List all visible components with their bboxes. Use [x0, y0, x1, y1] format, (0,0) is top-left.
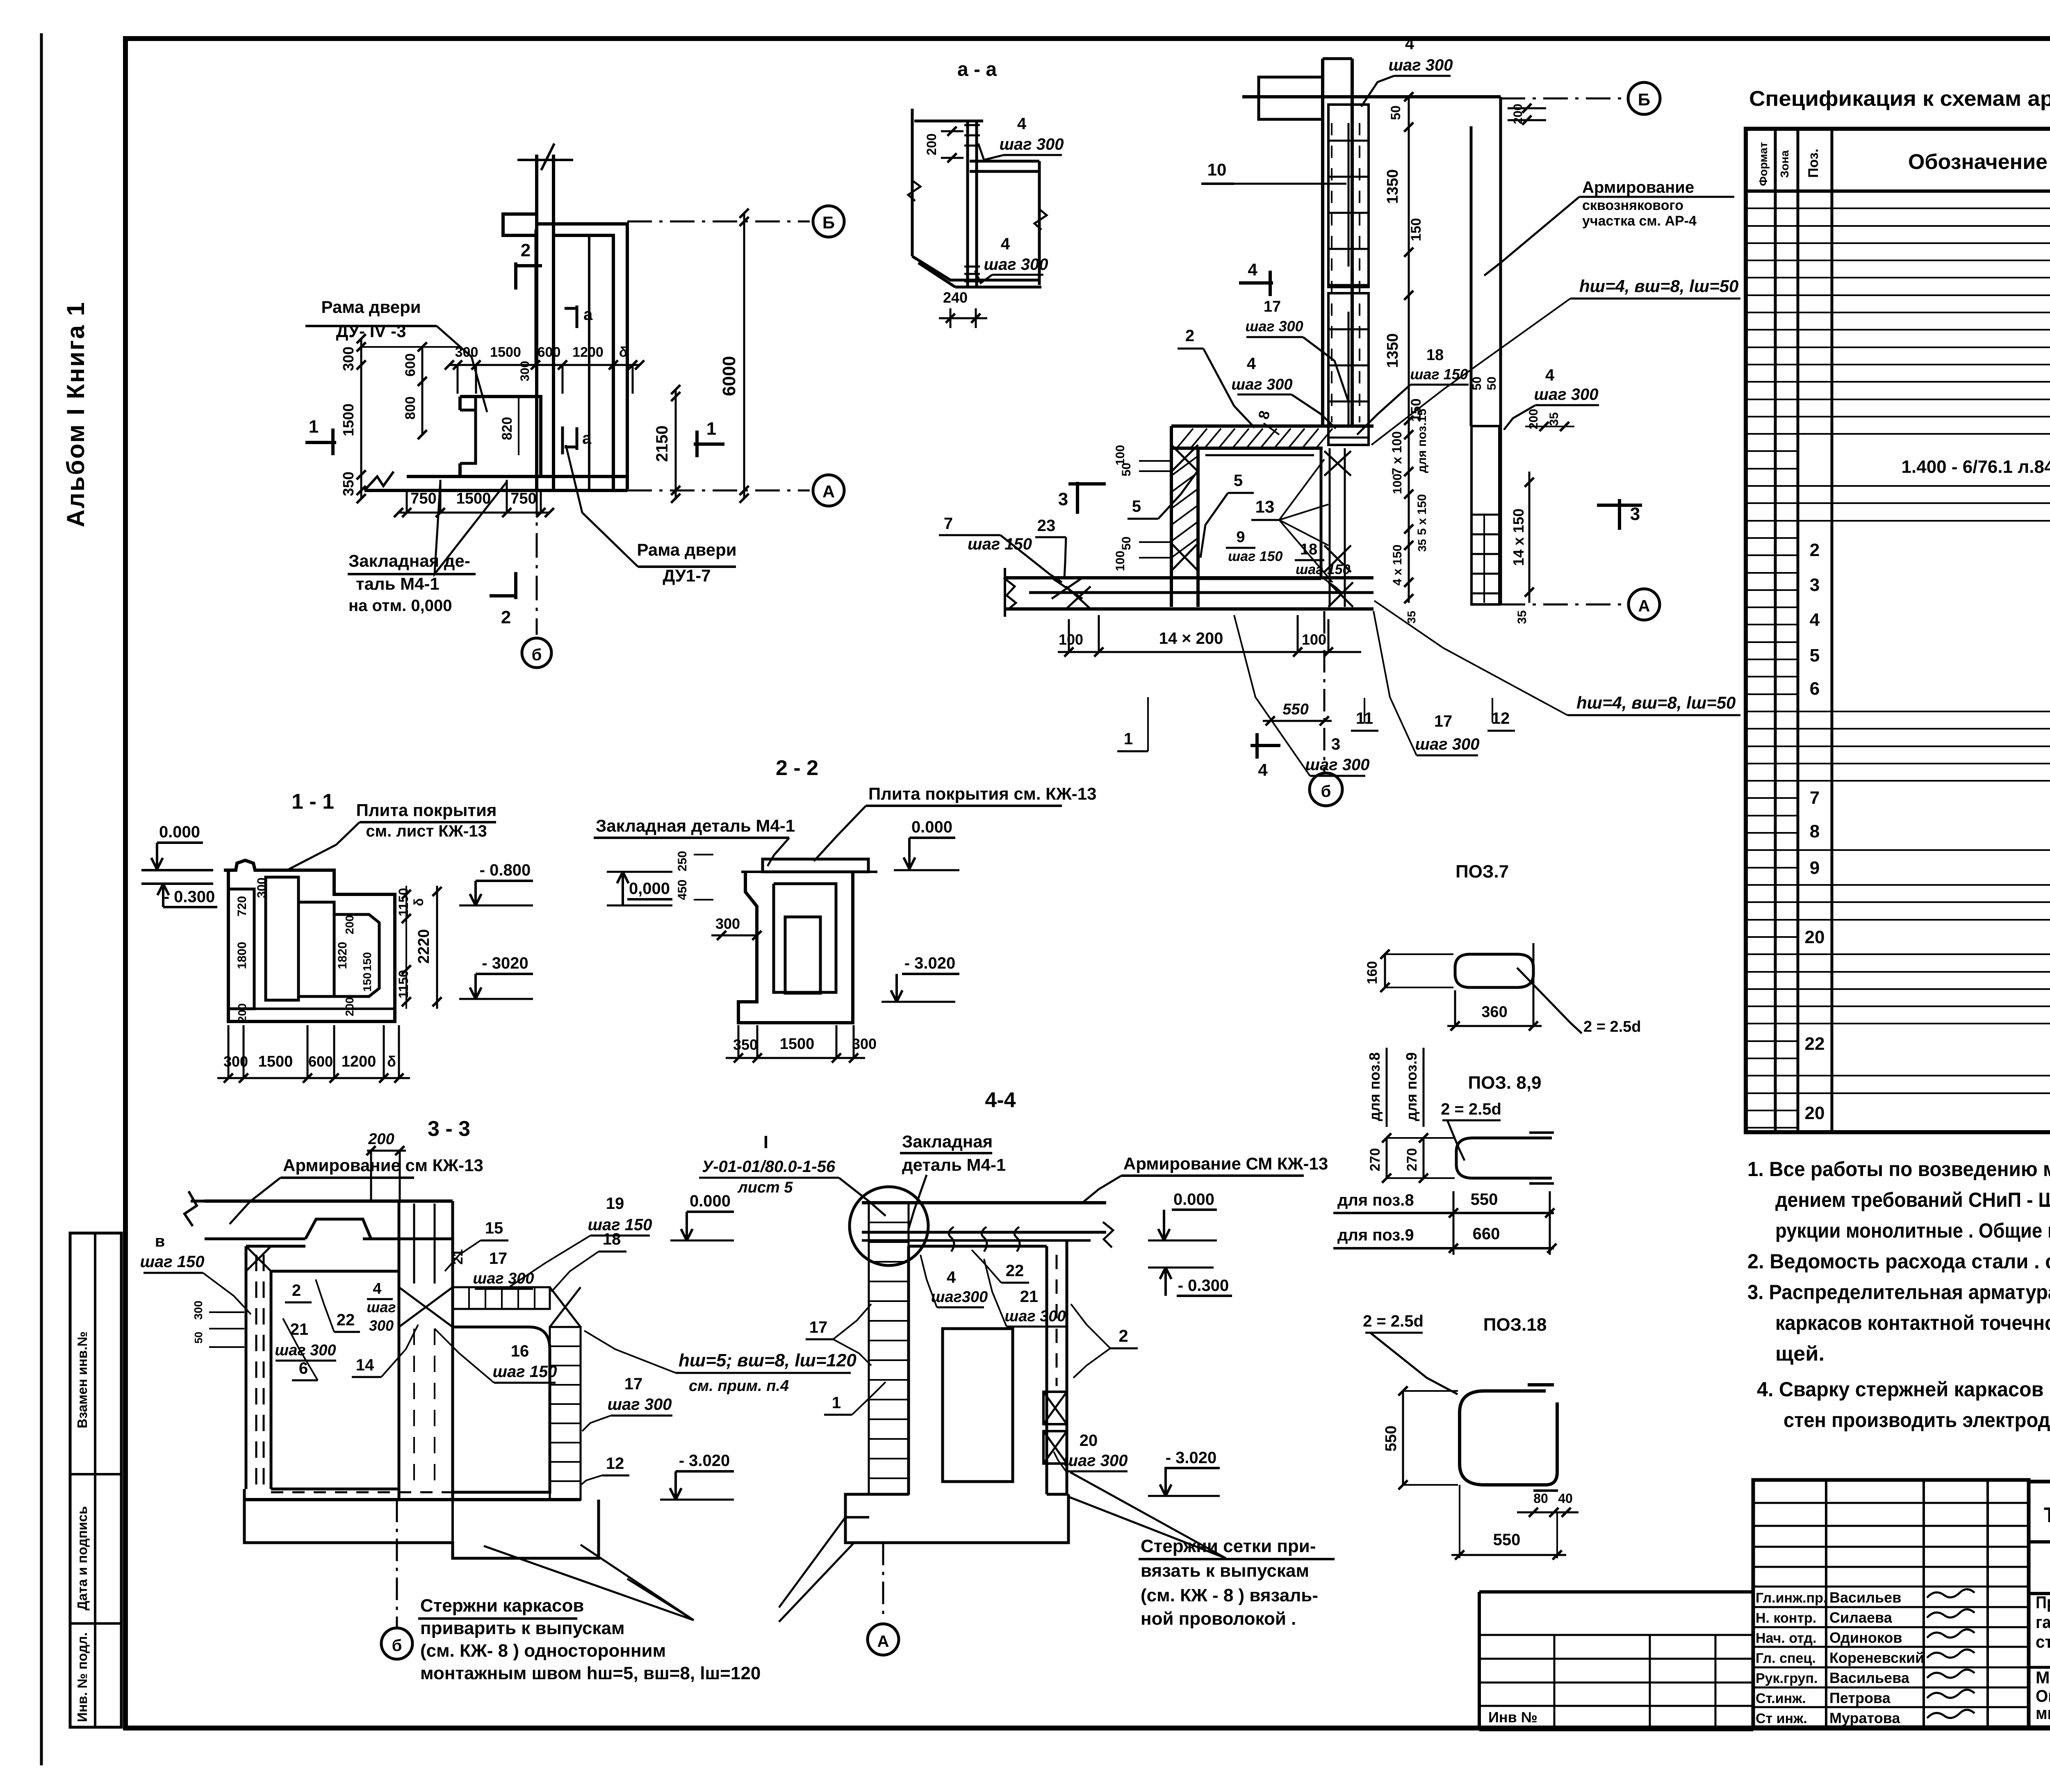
- svg-text:5: 5: [1132, 497, 1141, 515]
- svg-text:4: 4: [1258, 760, 1268, 780]
- title block: revision/signature table: [1753, 1480, 2029, 1727]
- TR: wall verticals: [1321, 59, 1324, 426]
- svg-text:4. Сварку стержней каркасов: 4. Сварку стержней каркасов покрытия со …: [1757, 1378, 2050, 1401]
- svg-text:шаг 300: шаг 300: [607, 1395, 672, 1414]
- svg-text:Армирование см КЖ-13: Армирование см КЖ-13: [283, 1156, 483, 1175]
- svg-text:ПОЗ.7: ПОЗ.7: [1455, 862, 1509, 882]
- a-a break squiggle left: [908, 180, 920, 201]
- svg-text:1: 1: [706, 419, 716, 439]
- svg-text:шаг 300: шаг 300: [1004, 1308, 1066, 1325]
- svg-text:14 × 200: 14 × 200: [1159, 629, 1223, 647]
- 3-3 room2: [453, 1327, 550, 1492]
- axis line down to circle b: [536, 490, 538, 635]
- svg-text:150: 150: [361, 973, 374, 992]
- svg-text:40: 40: [1558, 1491, 1573, 1506]
- svg-text:см. лист КЖ-13: см. лист КЖ-13: [366, 822, 487, 840]
- svg-text:660: 660: [1473, 1225, 1500, 1243]
- svg-text:- 3.020: - 3.020: [679, 1452, 730, 1470]
- left margin stamp boxes: [70, 1233, 121, 1727]
- svg-text:Силаева: Силаева: [1829, 1609, 1893, 1626]
- svg-text:4: 4: [1017, 115, 1027, 133]
- svg-text:лист 5: лист 5: [737, 1179, 793, 1196]
- svg-text:35: 35: [1547, 412, 1561, 426]
- svg-text:200: 200: [236, 1003, 248, 1023]
- svg-text:2220: 2220: [415, 929, 433, 964]
- svg-text:Ст.инж.: Ст.инж.: [1756, 1691, 1806, 1706]
- svg-text:на отм. 0,000: на отм. 0,000: [348, 597, 452, 615]
- TR: top horizontal line: [1242, 95, 1501, 98]
- TR: left protrusion: [1259, 77, 1323, 119]
- TR: section3 flag right: [1597, 504, 1642, 507]
- pos18 square hoop: [1460, 1385, 1557, 1485]
- 3-3 foundation: [244, 1498, 581, 1501]
- plan: bottom wall: [407, 475, 627, 478]
- svg-text:50: 50: [1120, 536, 1133, 550]
- svg-text:δ: δ: [411, 898, 426, 906]
- svg-text:6: 6: [1810, 679, 1820, 699]
- svg-text:20: 20: [1080, 1432, 1098, 1450]
- svg-text:шаг 150: шаг 150: [1296, 562, 1351, 577]
- svg-text:150: 150: [1408, 218, 1424, 242]
- svg-text:Васильев: Васильев: [1829, 1589, 1901, 1606]
- svg-text:1350: 1350: [1384, 333, 1401, 368]
- pos89 U shape: [1456, 1138, 1552, 1178]
- plan: room lower left: [460, 397, 541, 476]
- 4-4 leaders from left bottom: [779, 1517, 845, 1607]
- TR: axis circle A2: [1629, 589, 1660, 620]
- svg-text:20: 20: [1805, 927, 1825, 947]
- axis circle b small: [522, 638, 551, 668]
- svg-text:2: 2: [521, 240, 531, 260]
- plan: left dim string 300/1500/350: [360, 339, 362, 499]
- svg-text:шаг 300: шаг 300: [999, 135, 1064, 153]
- svg-text:550: 550: [1282, 701, 1308, 718]
- svg-text:б: б: [1321, 782, 1331, 800]
- plan: inner dims 600/800: [421, 347, 424, 435]
- TR: right dim strings lower: [1408, 435, 1410, 603]
- svg-text:А: А: [1638, 597, 1650, 615]
- 4-4 right wall rebar boxes: [1043, 1392, 1067, 1424]
- svg-text:шаг 150: шаг 150: [968, 535, 1032, 553]
- TR: vertical dim string: [1408, 97, 1410, 435]
- svg-text:шаг 300: шаг 300: [1063, 1452, 1127, 1470]
- 4-4 callout circle: [850, 1187, 928, 1265]
- plan: a-a cut marks: [576, 306, 579, 328]
- svg-text:22: 22: [1006, 1262, 1024, 1280]
- svg-text:ной проволокой .: ной проволокой .: [1141, 1609, 1296, 1629]
- svg-text:100: 100: [1114, 551, 1127, 571]
- plan: top tick at wall top: [517, 159, 573, 161]
- 3-3 left wall dashed: [245, 1246, 248, 1489]
- 4-4 wall outline: [909, 1245, 1047, 1248]
- svg-text:шаг 300: шаг 300: [1231, 376, 1292, 393]
- TR plan: inner room lines: [1198, 577, 1321, 580]
- svg-text:2150: 2150: [653, 426, 671, 462]
- a-a rebar ticks top: [964, 124, 980, 126]
- svg-text:17: 17: [624, 1375, 643, 1393]
- svg-text:2 = 2.5d: 2 = 2.5d: [1441, 1100, 1501, 1118]
- plan: upper-right wall outline: [537, 224, 627, 489]
- svg-text:шаг 150: шаг 150: [492, 1363, 557, 1381]
- 1-1 dim 2220: [436, 886, 438, 1009]
- svg-text:1820: 1820: [336, 942, 349, 969]
- svg-text:Нач. отд.: Нач. отд.: [1756, 1630, 1816, 1646]
- svg-text:Закладная де-: Закладная де-: [348, 551, 470, 570]
- svg-text:сквознякового: сквознякового: [1582, 198, 1683, 213]
- svg-text:3: 3: [1058, 489, 1068, 509]
- svg-text:450: 450: [676, 880, 689, 900]
- svg-text:Армирование СМ КЖ-13: Армирование СМ КЖ-13: [1123, 1154, 1328, 1173]
- TR: axis circle b2: [1310, 773, 1342, 806]
- svg-text:1: 1: [1124, 730, 1133, 748]
- svg-text:18: 18: [603, 1230, 621, 1248]
- svg-text:9: 9: [1236, 529, 1245, 546]
- svg-text:300: 300: [715, 915, 740, 932]
- svg-text:17: 17: [489, 1249, 508, 1268]
- svg-text:шаг 150: шаг 150: [1410, 366, 1468, 383]
- svg-text:12: 12: [1492, 709, 1510, 727]
- svg-text:4: 4: [1001, 235, 1010, 253]
- svg-text:12: 12: [606, 1455, 624, 1473]
- svg-text:5 x 150: 5 x 150: [1415, 494, 1429, 535]
- svg-text:4-4: 4-4: [985, 1088, 1016, 1112]
- svg-text:деталь М4-1: деталь М4-1: [902, 1155, 1006, 1174]
- TR: section3 flag left: [1068, 482, 1106, 486]
- TR plan: left wall hatch: [1171, 456, 1198, 476]
- svg-text:350: 350: [340, 472, 357, 496]
- svg-text:4: 4: [373, 1280, 381, 1297]
- svg-text:21: 21: [450, 1249, 466, 1265]
- svg-text:6000: 6000: [719, 356, 739, 396]
- svg-text:Б: Б: [1638, 90, 1650, 109]
- svg-text:20: 20: [1805, 1103, 1825, 1123]
- svg-text:5: 5: [1234, 472, 1243, 490]
- svg-text:4 x 150: 4 x 150: [1391, 545, 1404, 586]
- sheet edge line: [40, 33, 43, 1765]
- svg-text:270: 270: [1367, 1148, 1383, 1172]
- svg-text:19: 19: [606, 1195, 624, 1213]
- svg-text:Формат: Формат: [1757, 142, 1770, 186]
- svg-text:150: 150: [361, 952, 374, 971]
- svg-text:2: 2: [292, 1281, 301, 1300]
- 4-4 leaders to right note: [1068, 1497, 1226, 1558]
- svg-text:100: 100: [1391, 474, 1404, 494]
- spec table columns: [1774, 129, 1777, 1132]
- svg-text:в: в: [155, 1232, 165, 1250]
- svg-text:750: 750: [510, 490, 536, 507]
- 1-1 bottom dim 300/1500/600/1200: [217, 1077, 410, 1079]
- a-a rebar ticks bottom: [964, 266, 980, 268]
- svg-text:1.400 - 6/76.1 л.84: 1.400 - 6/76.1 л.84: [1902, 457, 2050, 477]
- svg-text:200: 200: [343, 915, 356, 935]
- plan: dim 2150: [675, 390, 677, 498]
- svg-text:Производственное здание Вспомо: Производственное здание Вспомо-: [2036, 1593, 2050, 1612]
- svg-text:80: 80: [1533, 1491, 1548, 1506]
- svg-text:приварить к выпускам: приварить к выпускам: [420, 1618, 625, 1638]
- svg-text:50: 50: [1470, 376, 1484, 390]
- spec table frame: [1746, 129, 2050, 1132]
- svg-text:Плита покрытия см. КЖ-13: Плита покрытия см. КЖ-13: [868, 784, 1096, 803]
- svg-text:шаг: шаг: [367, 1299, 396, 1316]
- svg-text:Опалубочные чертежи и схе-: Опалубочные чертежи и схе-: [2036, 1686, 2050, 1705]
- svg-text:16: 16: [511, 1342, 529, 1360]
- svg-text:4: 4: [947, 1268, 956, 1286]
- svg-text:0.000: 0.000: [690, 1192, 731, 1210]
- a-a right shelf: [970, 160, 1039, 163]
- svg-text:Спецификация к схемам армирова: Спецификация к схемам армирования моноли…: [1749, 87, 2050, 111]
- svg-text:200: 200: [368, 1131, 394, 1148]
- TR plan: top wall: [1171, 424, 1373, 428]
- svg-text:А: А: [877, 1632, 889, 1651]
- 4-4 top slab: [862, 1201, 1106, 1204]
- TR plan: floor left break: [1004, 568, 1006, 617]
- 2-2 inner rect lines: [774, 884, 836, 992]
- svg-text:14 x 150: 14 x 150: [1510, 508, 1527, 566]
- spec table header row: [1746, 189, 2050, 193]
- TR plan: right cage column 12: [1471, 426, 1499, 604]
- svg-text:23: 23: [1037, 517, 1056, 535]
- svg-text:Закладная: Закладная: [902, 1132, 993, 1151]
- svg-text:Н. контр.: Н. контр.: [1756, 1610, 1816, 1626]
- svg-text:1500: 1500: [258, 1053, 293, 1070]
- svg-text:200: 200: [343, 997, 356, 1017]
- svg-text:2: 2: [1118, 1326, 1128, 1345]
- svg-text:ДУ1-7: ДУ1-7: [663, 566, 711, 585]
- svg-text:1200: 1200: [342, 1053, 376, 1070]
- a-a bottom slope: [912, 256, 1039, 280]
- svg-text:hш=4, вш=8, lш=50: hш=4, вш=8, lш=50: [1576, 693, 1736, 712]
- svg-text:820: 820: [499, 417, 515, 440]
- plan: section mark 1 left: [305, 441, 336, 444]
- plan: section mark 2 bottom: [514, 572, 517, 599]
- svg-text:2. Ведомость расхода стали .: 2. Ведомость расхода стали . см . лист К…: [1747, 1250, 2050, 1273]
- svg-text:У-01-01/80.0-1-56: У-01-01/80.0-1-56: [702, 1158, 836, 1176]
- svg-text:Стержни каркасов: Стержни каркасов: [420, 1596, 584, 1616]
- svg-text:для поз.9: для поз.9: [1403, 1052, 1420, 1121]
- svg-text:hш=4, вш=8, lш=50: hш=4, вш=8, lш=50: [1579, 276, 1738, 296]
- svg-text:Стержни сетки при-: Стержни сетки при-: [1141, 1536, 1316, 1556]
- axis line to circle B: [627, 221, 810, 223]
- TR: section4 flag left: [1239, 281, 1273, 285]
- svg-text:50: 50: [192, 1332, 205, 1344]
- svg-text:Рама двери: Рама двери: [321, 297, 421, 317]
- svg-text:шаг 300: шаг 300: [1305, 756, 1369, 774]
- svg-text:600: 600: [403, 353, 418, 377]
- axis line to circle A: [627, 490, 810, 492]
- 3-3 horizontal ladder: [453, 1287, 550, 1309]
- svg-text:1500: 1500: [340, 404, 357, 436]
- svg-text:22: 22: [1805, 1034, 1825, 1054]
- svg-text:шаг300: шаг300: [931, 1288, 988, 1306]
- svg-text:hш=5; вш=8, lш=120: hш=5; вш=8, lш=120: [679, 1350, 856, 1370]
- svg-text:шаг 300: шаг 300: [275, 1342, 336, 1359]
- svg-text:5: 5: [1810, 645, 1820, 666]
- pos7 leader 2=2.5d: [1517, 968, 1582, 1033]
- TR plan: top wall hatch: [1177, 429, 1193, 448]
- svg-text:0.000: 0.000: [911, 818, 952, 836]
- svg-text:для поз.8: для поз.8: [1366, 1052, 1383, 1121]
- 2-2 bottom dims 350/1500/300: [726, 1057, 865, 1059]
- TR: axis circle B2: [1628, 82, 1660, 114]
- svg-text:7: 7: [944, 515, 953, 533]
- svg-text:800: 800: [403, 397, 418, 420]
- svg-text:18: 18: [1426, 347, 1444, 364]
- 3-3 leader V to note: [581, 1545, 694, 1620]
- svg-text:см. прим. п.4: см. прим. п.4: [689, 1377, 789, 1395]
- plan: inner door jamb: [474, 397, 477, 410]
- svg-text:- 3020: - 3020: [482, 954, 528, 972]
- svg-text:1: 1: [832, 1394, 841, 1412]
- TR: dim 200 top right: [1508, 107, 1546, 109]
- svg-text:Инв. № подл.: Инв. № подл.: [75, 1632, 90, 1722]
- TR: bottom dim 100/14x200/100: [1058, 651, 1361, 653]
- svg-text:стен производить электродами: стен производить электродами Э50А .: [1783, 1409, 2050, 1432]
- svg-text:3 - 3: 3 - 3: [428, 1117, 470, 1141]
- svg-text:Гл. спец.: Гл. спец.: [1756, 1651, 1816, 1666]
- svg-text:ПОЗ. 8,9: ПОЗ. 8,9: [1468, 1073, 1541, 1093]
- svg-text:720: 720: [235, 896, 249, 917]
- svg-text:Петрова: Петрова: [1829, 1689, 1891, 1706]
- svg-text:2: 2: [1810, 540, 1820, 560]
- plan: top dim string 300/1500/600/1200: [449, 364, 640, 366]
- 4-4 squiggle hooks top: [949, 1227, 954, 1252]
- svg-text:шаг 150: шаг 150: [140, 1253, 204, 1271]
- TR: axis line to circle A2: [1501, 604, 1626, 606]
- svg-text:4: 4: [1405, 35, 1414, 53]
- svg-text:шаг 300: шаг 300: [984, 255, 1048, 274]
- svg-text:- 3.020: - 3.020: [1166, 1449, 1217, 1467]
- plan: vertical wall double line: [535, 155, 538, 490]
- svg-text:б: б: [532, 646, 542, 664]
- svg-text:Гл.инж.пр.: Гл.инж.пр.: [1756, 1590, 1827, 1606]
- svg-text:1800: 1800: [235, 942, 249, 969]
- TR shaft: inner dashed rebar: [1331, 123, 1332, 422]
- svg-text:1. Все работы по возведению: 1. Все работы по возведению монолитного …: [1747, 1158, 2050, 1181]
- axis circle B: [813, 206, 844, 237]
- svg-text:300: 300: [852, 1035, 877, 1052]
- svg-text:ПОЗ.18: ПОЗ.18: [1483, 1315, 1547, 1335]
- axis circle A: [813, 475, 844, 506]
- 3-3 right vertical ladder: [550, 1327, 581, 1500]
- svg-text:21: 21: [1020, 1288, 1039, 1306]
- svg-text:270: 270: [1404, 1148, 1420, 1172]
- svg-text:2: 2: [501, 607, 511, 627]
- svg-text:160: 160: [1364, 961, 1380, 985]
- svg-text:1: 1: [309, 417, 319, 437]
- svg-text:- 0.800: - 0.800: [480, 861, 531, 879]
- svg-text:монтажным швом hш=5, вш=8,: монтажным швом hш=5, вш=8, lш=120: [420, 1663, 761, 1683]
- svg-text:щей.: щей.: [1775, 1342, 1824, 1365]
- svg-text:2 - 2: 2 - 2: [776, 756, 818, 780]
- svg-text:(см. КЖ- 8 ) односторонним: (см. КЖ- 8 ) односторонним: [420, 1641, 666, 1661]
- TR: axis line down to circle b2: [1323, 611, 1326, 773]
- svg-text:4: 4: [1247, 355, 1256, 373]
- svg-text:δ: δ: [387, 1053, 396, 1070]
- svg-text:0.000: 0.000: [159, 823, 200, 841]
- svg-text:- 0.300: - 0.300: [164, 888, 215, 906]
- plan: dim 6000: [743, 213, 745, 498]
- svg-text:Муратова: Муратова: [1829, 1710, 1900, 1726]
- svg-text:для поз.15: для поз.15: [1415, 409, 1429, 473]
- 3-3 central column: [398, 1201, 401, 1500]
- svg-text:300: 300: [255, 878, 269, 898]
- svg-text:600: 600: [538, 344, 561, 360]
- svg-text:17: 17: [1264, 298, 1281, 315]
- TR plan: central wall hatch: [1324, 451, 1351, 476]
- 2-2 body outline: [738, 872, 853, 1023]
- svg-text:Рама двери: Рама двери: [637, 540, 736, 559]
- svg-text:каркасов контактной точечной: каркасов контактной точечной сваркой с п…: [1775, 1311, 2050, 1334]
- svg-text:200: 200: [1511, 104, 1525, 124]
- TR: section4 flag bottom: [1250, 744, 1280, 747]
- svg-text:7 x 100: 7 x 100: [1389, 431, 1404, 475]
- svg-text:Взамен инв.№: Взамен инв.№: [75, 1331, 90, 1428]
- svg-text:шаг 300: шаг 300: [1245, 318, 1303, 335]
- svg-text:35: 35: [1405, 611, 1418, 623]
- svg-text:a: a: [582, 429, 592, 447]
- svg-text:360: 360: [1481, 1003, 1507, 1021]
- 4-4 foundation: [845, 1494, 1068, 1543]
- TR plan: floor x-box: [1052, 578, 1082, 599]
- TR plan: dim 14x150 right: [1528, 472, 1531, 603]
- svg-text:1500: 1500: [490, 344, 521, 360]
- svg-text:Плита покрытия: Плита покрытия: [356, 800, 497, 820]
- svg-text:9: 9: [1810, 858, 1820, 878]
- svg-text:- 3.020: - 3.020: [904, 954, 956, 972]
- plan: left break mark: [364, 472, 394, 490]
- svg-text:2 = 2.5d: 2 = 2.5d: [1583, 1018, 1641, 1035]
- svg-text:8: 8: [1810, 821, 1820, 841]
- svg-text:35: 35: [1515, 610, 1529, 624]
- svg-text:4: 4: [1545, 366, 1555, 384]
- svg-text:4: 4: [1810, 610, 1820, 630]
- svg-text:14: 14: [356, 1356, 374, 1374]
- svg-text:750: 750: [410, 490, 436, 507]
- svg-text:стоящее заглубленное: стоящее заглубленное: [2036, 1632, 2050, 1651]
- svg-text:Дата и подпись: Дата и подпись: [75, 1506, 90, 1610]
- svg-text:250: 250: [676, 851, 689, 871]
- 1-1 inner lines: [228, 889, 254, 1009]
- svg-text:0.000: 0.000: [1173, 1190, 1214, 1208]
- svg-text:22: 22: [337, 1311, 355, 1329]
- svg-text:10: 10: [1207, 160, 1227, 179]
- svg-text:300: 300: [369, 1317, 394, 1334]
- svg-text:4: 4: [1248, 260, 1257, 279]
- svg-text:100: 100: [1059, 631, 1083, 648]
- svg-text:вязать к выпускам: вязать к выпускам: [1141, 1561, 1309, 1581]
- svg-text:дением требований СНиП - Ш -: дением требований СНиП - Ш -15 -76 „ Бет…: [1775, 1188, 2050, 1211]
- svg-text:δ: δ: [619, 344, 628, 360]
- svg-text:1500: 1500: [780, 1035, 815, 1053]
- svg-text:Обозначение: Обозначение: [1908, 150, 2048, 174]
- svg-text:Армирование: Армирование: [1582, 178, 1694, 196]
- a-a double vertical: [966, 121, 969, 287]
- svg-text:13: 13: [1255, 497, 1275, 516]
- svg-text:мы армирования: мы армирования: [2036, 1703, 2050, 1723]
- svg-text:100: 100: [1114, 445, 1127, 465]
- 3-3 room1: [271, 1271, 399, 1489]
- TR: axis to circle B2: [1501, 98, 1626, 100]
- svg-text:Инв №: Инв №: [1488, 1709, 1537, 1726]
- svg-text:3. Распределительная арматур: 3. Распределительная арматура приваривае…: [1747, 1281, 2050, 1304]
- svg-text:3: 3: [1810, 575, 1820, 595]
- svg-text:1 - 1: 1 - 1: [292, 790, 334, 814]
- svg-text:б: б: [392, 1637, 402, 1655]
- 2-2 top slab: [763, 859, 868, 872]
- svg-text:Монолитный участок N2: Монолитный участок N2: [2036, 1668, 2050, 1687]
- svg-text:ДУ- IV -3: ДУ- IV -3: [336, 321, 406, 341]
- svg-text:300: 300: [518, 361, 532, 381]
